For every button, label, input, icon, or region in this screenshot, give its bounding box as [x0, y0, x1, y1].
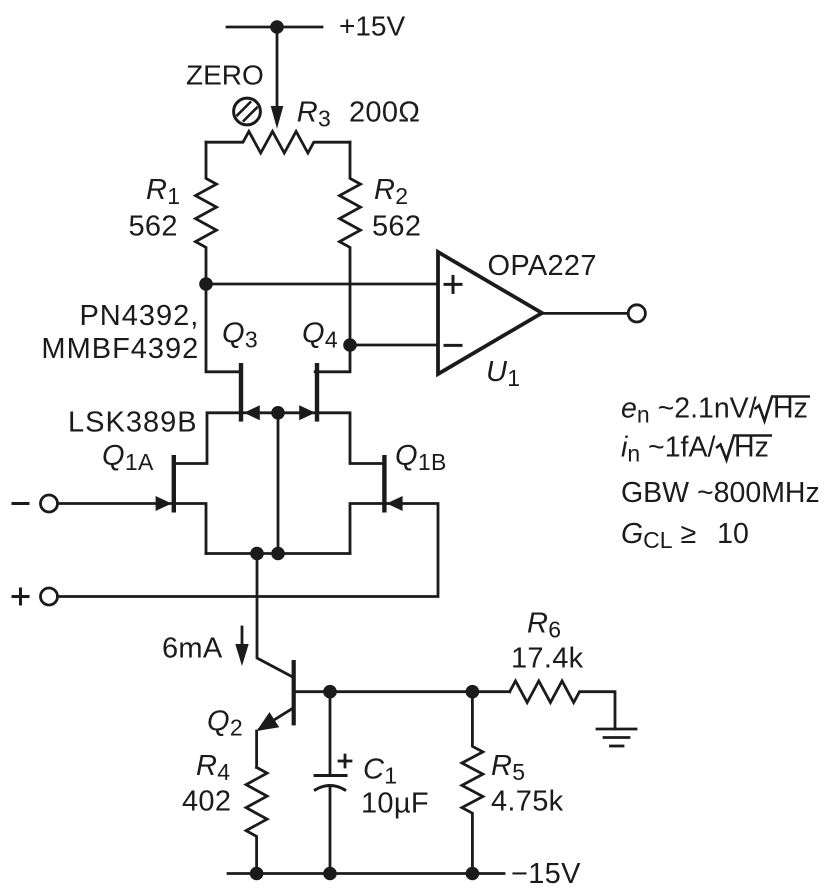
- resistor R5 4.75k: [462, 692, 483, 874]
- resistor R2 562: [340, 142, 361, 345]
- node R4 on rail: [250, 867, 264, 881]
- svg-text:ZERO: ZERO: [186, 60, 264, 91]
- svg-text:MMBF4392: MMBF4392: [41, 333, 199, 365]
- node base-R5 junction: [466, 685, 480, 699]
- svg-text:4.75k: 4.75k: [491, 786, 564, 818]
- node tail junction: [250, 547, 264, 561]
- node base-C1 junction: [323, 685, 337, 699]
- svg-text:PN4392,: PN4392,: [79, 300, 199, 332]
- svg-text:+15V: +15V: [339, 11, 405, 42]
- wire cascode gates: [244, 411, 315, 414]
- resistor R1 562: [196, 142, 217, 284]
- svg-text:Q1A: Q1A: [102, 440, 154, 475]
- svg-text:Q2: Q2: [207, 706, 243, 741]
- svg-text:6mA: 6mA: [162, 633, 223, 665]
- svg-text:R5: R5: [491, 750, 525, 785]
- transistor Q1A JFET: [156, 455, 206, 554]
- svg-text:U1: U1: [486, 356, 520, 391]
- wire to op-amp - input: [350, 344, 438, 347]
- svg-text:17.4k: 17.4k: [511, 643, 584, 675]
- transistor Q2 BJT: [257, 660, 296, 767]
- inverting input terminal: [41, 495, 58, 512]
- svg-text:OPA227: OPA227: [488, 250, 597, 282]
- wire R1 node to Q3 drain: [206, 284, 239, 372]
- wire +15V supply rail: [227, 26, 322, 29]
- svg-text:Q4: Q4: [302, 318, 338, 353]
- resistor R6 17.4k: [510, 681, 615, 729]
- svg-text:GCL ≥10: GCL ≥10: [621, 518, 749, 553]
- svg-text:R6: R6: [527, 608, 561, 643]
- node cascode gates: [271, 406, 285, 420]
- svg-text:−15V: −15V: [511, 858, 581, 890]
- svg-text:402: 402: [182, 786, 231, 818]
- svg-text:LSK389B: LSK389B: [68, 407, 198, 439]
- node noninverting summing: [199, 277, 213, 291]
- svg-text:R2: R2: [374, 174, 408, 209]
- wire + input to Q1B gate: [58, 504, 439, 597]
- svg-text:200Ω: 200Ω: [349, 97, 420, 129]
- wire R2 node to Q4 drain: [315, 345, 350, 372]
- svg-text:R1: R1: [146, 174, 180, 209]
- output terminal circle: [628, 305, 645, 322]
- node supply junction: [270, 20, 284, 34]
- wire to op-amp + input: [206, 283, 438, 286]
- svg-text:in ~1fA/: in ~1fA/: [621, 432, 715, 467]
- wire common source rail: [206, 552, 350, 555]
- transistor Q4 cascode JFET: [299, 363, 382, 464]
- svg-text:Q1B: Q1B: [395, 440, 447, 475]
- svg-text:R4: R4: [196, 750, 230, 785]
- transistor Q3 cascode JFET: [176, 363, 260, 464]
- node gate-rail junction: [271, 547, 285, 561]
- node inverting summing: [343, 338, 357, 352]
- wire -15V rail: [228, 872, 504, 875]
- svg-text:562: 562: [372, 211, 421, 243]
- node R5 on rail: [466, 867, 480, 881]
- noninverting input terminal: [41, 588, 58, 605]
- wire Q2 base to bias divider: [296, 690, 510, 693]
- node C1 on rail: [323, 867, 337, 881]
- wire gates to common-source rail: [277, 413, 280, 554]
- svg-text:R3: R3: [297, 97, 331, 132]
- svg-text:C1: C1: [363, 754, 397, 789]
- transistor Q1B JFET: [350, 455, 403, 554]
- op-amp U1: [438, 252, 542, 374]
- svg-text:10µF: 10µF: [361, 788, 429, 820]
- potentiometer R3 200 ohm: [206, 131, 350, 153]
- trimmer screw symbol (ZERO adjust): [232, 98, 263, 125]
- radical sign over Hz (in line): [716, 436, 772, 461]
- svg-text:en ~2.1nV/: en ~2.1nV/: [621, 393, 757, 428]
- capacitor C1 10uF: [315, 692, 346, 874]
- svg-text:GBW ~800MHz: GBW ~800MHz: [621, 477, 820, 509]
- svg-text:562: 562: [129, 211, 178, 243]
- label - input: [13, 502, 28, 505]
- wire - input to Q1A gate: [58, 502, 172, 505]
- label + input: [13, 589, 28, 604]
- ground symbol: [597, 729, 636, 746]
- wire tail to Q2 collector: [257, 554, 292, 677]
- op-amp - sign: [445, 344, 461, 347]
- wire op-amp output: [542, 312, 628, 315]
- 6mA current arrow: [235, 627, 248, 666]
- radical sign over Hz (en line): [755, 397, 811, 422]
- svg-text:Q3: Q3: [222, 318, 258, 353]
- op-amp + sign: [445, 276, 461, 292]
- wire supply to R3 wiper (arrow): [271, 27, 284, 129]
- label + C1 polarity: [339, 755, 351, 767]
- resistor R4 402: [246, 767, 267, 873]
